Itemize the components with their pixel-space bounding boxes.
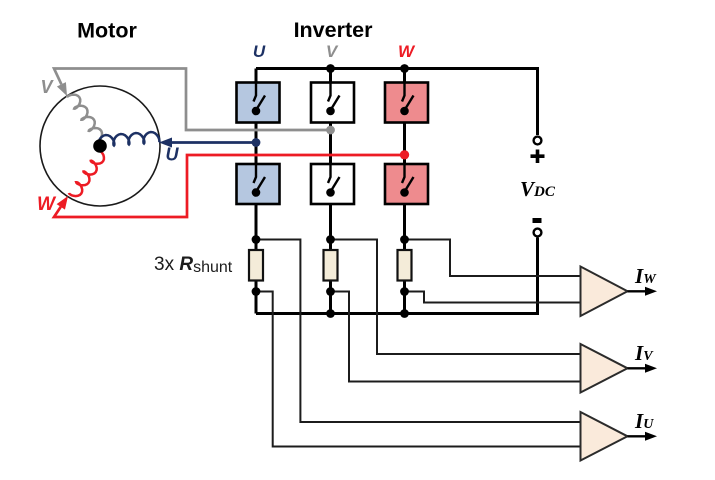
junction phase V: [326, 126, 335, 135]
switch Q2 V high: [311, 83, 354, 123]
junction shunt U top: [252, 235, 261, 244]
svg-text:V: V: [40, 77, 54, 97]
resistor R1 shunt: [249, 250, 263, 281]
svg-text:V: V: [326, 42, 339, 61]
resistor R2 shunt: [324, 250, 338, 281]
junction shunt U bottom: [252, 287, 261, 296]
junction shunt W top: [400, 235, 409, 244]
wire inverter leg U: [255, 69, 258, 314]
junction phase U: [252, 138, 261, 147]
winding U coil: [98, 132, 159, 147]
op-amp A3: [581, 412, 628, 461]
wire bottom DC rail: [256, 238, 538, 314]
svg-text:W: W: [398, 42, 416, 61]
winding W coil: [69, 150, 104, 196]
arrow phase V: [57, 82, 67, 96]
minus sign: [533, 218, 542, 223]
svg-text:W: W: [37, 194, 57, 215]
wire shunt W top sense: [405, 240, 581, 277]
switch Q6 W low: [385, 164, 428, 204]
op-amp A2: [581, 344, 628, 393]
switch Q3 W high: [385, 83, 428, 123]
junction bottom rail W: [400, 309, 409, 318]
terminal VDC minus: [534, 229, 542, 237]
arrow phase U: [159, 138, 172, 148]
junction top rail W: [400, 64, 409, 73]
svg-text:U: U: [166, 145, 180, 165]
svg-text:Inverter: Inverter: [294, 18, 374, 42]
wire A2 output arrow: [628, 367, 647, 369]
wire top DC rail: [256, 69, 538, 136]
svg-text:Motor: Motor: [77, 19, 137, 43]
junction shunt V top: [326, 235, 335, 244]
winding V coil: [67, 95, 102, 143]
wire A3 output arrow: [628, 435, 647, 437]
terminal VDC plus: [534, 137, 542, 145]
junction phase W: [400, 150, 409, 159]
wire inverter leg W: [403, 69, 406, 314]
switch Q4 U low: [237, 164, 280, 204]
wire A1 output arrow: [628, 290, 647, 292]
wire phase U blue: [171, 141, 256, 144]
junction top rail V: [326, 64, 335, 73]
wire shunt U bottom sense: [256, 292, 581, 447]
wire shunt V bottom sense: [331, 292, 581, 382]
resistor R3 shunt: [398, 250, 412, 281]
switch Q5 V low: [311, 164, 354, 204]
wire phase W red: [54, 155, 405, 217]
junction shunt V bottom: [326, 287, 335, 296]
junction bottom rail V: [326, 309, 335, 318]
arrow phase W: [57, 196, 68, 210]
wire shunt W bottom sense: [405, 292, 581, 303]
svg-text:U: U: [253, 42, 266, 61]
op-amp A1: [581, 267, 628, 317]
motor center node: [93, 139, 107, 153]
wire inverter leg V: [329, 69, 332, 314]
wire phase V gray: [54, 69, 331, 131]
wire shunt U top sense: [256, 240, 581, 423]
wire shunt V top sense: [331, 240, 581, 355]
motor stator circle: [40, 86, 160, 206]
plus sign: [531, 150, 545, 164]
junction shunt W bottom: [400, 287, 409, 296]
switch Q1 U high: [237, 83, 280, 123]
